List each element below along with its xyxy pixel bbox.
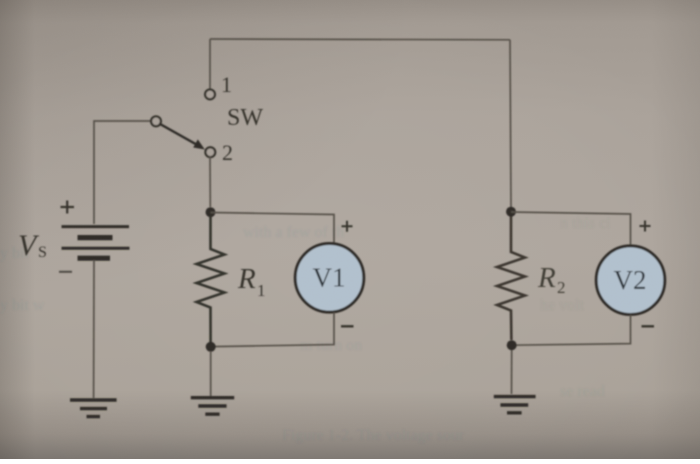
voltmeter V2 <box>596 246 665 315</box>
wire switch terminal 2 to node A <box>209 156 211 207</box>
voltmeter V1 <box>295 243 364 312</box>
wire voltmeter V1 bottom to node B <box>211 312 334 346</box>
wire top bus from switch terminal 1 to R2 branch <box>210 38 510 41</box>
ground (battery) <box>70 400 117 417</box>
switch SW label <box>227 105 263 131</box>
wire node A to voltmeter V1 top <box>211 213 335 244</box>
switch SW blade arrow to terminal 2 <box>160 124 205 150</box>
wire battery negative to ground <box>93 260 95 398</box>
node D junction dot (R2 bottom) <box>507 340 517 350</box>
resistor R1 <box>197 216 225 342</box>
wire node B to ground <box>210 351 212 396</box>
wire from battery positive to switch pole <box>94 121 151 224</box>
node A junction dot (R1 top) <box>206 207 216 217</box>
wire voltmeter V2 bottom to node D <box>512 315 631 345</box>
V1 minus polarity mark <box>341 325 354 327</box>
switch SW pole terminal <box>151 116 161 126</box>
battery VS negative minus mark <box>59 271 72 273</box>
battery VS positive plus mark <box>61 201 75 214</box>
wire switch terminal 1 drop <box>209 39 211 90</box>
switch SW terminal 1 <box>205 90 215 100</box>
value label R2 <box>537 262 566 297</box>
value label R1 <box>237 263 266 300</box>
node C junction dot (R2 top) <box>506 207 516 217</box>
node B junction dot (R1 bottom) <box>206 342 216 352</box>
battery VS <box>62 227 130 259</box>
value label VS <box>18 229 47 262</box>
switch SW terminal 2 <box>205 147 215 157</box>
pin label 2 <box>222 140 233 165</box>
V2 minus polarity mark <box>642 325 655 327</box>
ground (R1 branch) <box>191 398 234 415</box>
resistor R2 <box>497 217 525 341</box>
ground (R2 branch) <box>494 397 536 413</box>
pin label 1 <box>221 72 232 97</box>
V2 plus polarity mark <box>640 221 651 232</box>
wire R2 branch drop from top bus <box>510 40 511 207</box>
wire node C to voltmeter V2 top <box>511 212 631 246</box>
V1 plus polarity mark <box>342 221 353 232</box>
wire node D to ground <box>511 350 513 394</box>
